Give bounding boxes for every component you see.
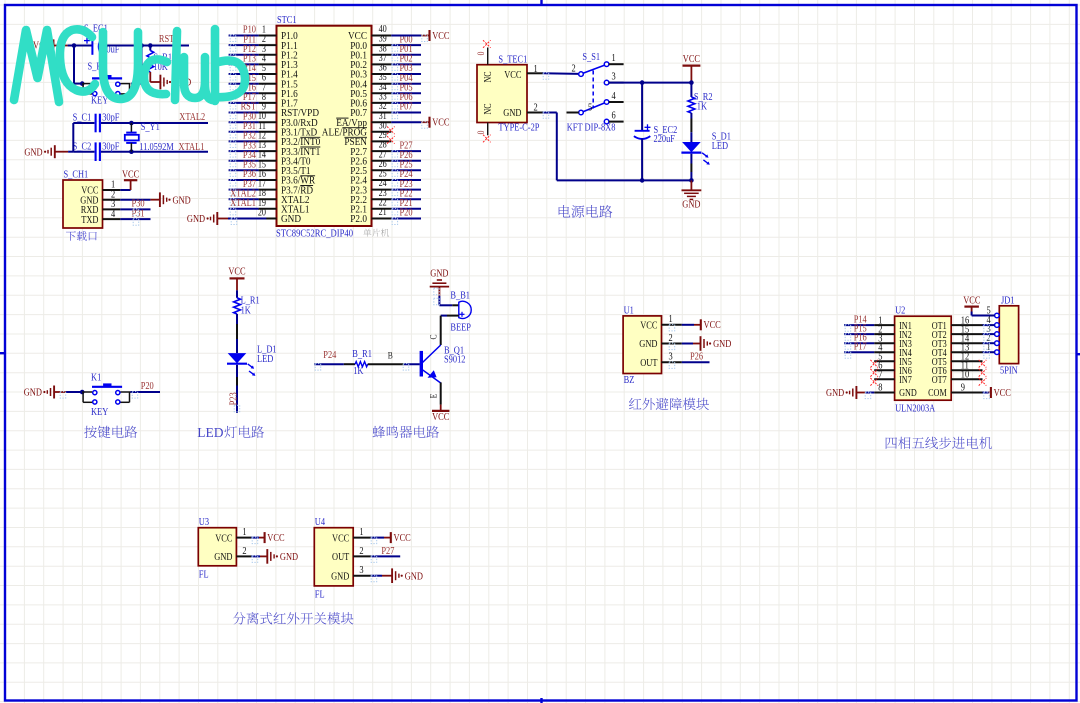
caption 红外避障模块 xyxy=(629,398,709,410)
wire U3 gnd xyxy=(251,555,260,557)
svg-text:GND: GND xyxy=(280,552,299,563)
pin 5 (left) of STC1 xyxy=(259,73,277,75)
transistor emitter xyxy=(423,370,441,383)
power VCC S_CH1 xyxy=(120,189,130,191)
wire net P03 xyxy=(391,73,421,75)
svg-text:GND: GND xyxy=(826,388,845,399)
svg-text:0: 0 xyxy=(477,51,487,55)
node RST junction xyxy=(148,43,153,48)
pin 24 (right) of STC1 xyxy=(372,189,392,191)
wire net P26 xyxy=(391,160,421,162)
svg-text:1: 1 xyxy=(359,527,363,538)
svg-text:1K: 1K xyxy=(353,366,364,377)
svg-text:4: 4 xyxy=(111,209,116,220)
svg-text:B_B1: B_B1 xyxy=(450,291,470,302)
pin 13 of U2 xyxy=(951,351,982,353)
wire U1 gnd xyxy=(682,343,693,345)
power VCC at pin31 xyxy=(428,117,430,128)
svg-text:OUT: OUT xyxy=(332,552,350,563)
svg-text:LED: LED xyxy=(712,141,729,152)
svg-text:P26: P26 xyxy=(690,351,703,362)
capacitor S_EC2 xyxy=(641,83,643,131)
pin 29 (right) of STC1 xyxy=(372,140,392,142)
wire LED to P23 xyxy=(236,365,238,377)
pin 12 of U2 xyxy=(951,360,982,362)
svg-text:P24: P24 xyxy=(323,350,337,361)
pin 2 of S_CH1 xyxy=(103,199,121,201)
pin 8 of U2 xyxy=(874,392,894,394)
connector S_CH1 body xyxy=(63,180,103,228)
module U4 body xyxy=(314,528,353,586)
wire U1 vcc xyxy=(682,324,694,326)
svg-text:5PIN: 5PIN xyxy=(1000,366,1018,377)
svg-text:K1: K1 xyxy=(91,373,101,384)
wire net P33 xyxy=(229,150,259,152)
pin 15 (left) of STC1 xyxy=(259,169,277,171)
svg-text:9: 9 xyxy=(961,383,965,394)
svg-text:VCC: VCC xyxy=(963,296,980,307)
wire R to LED xyxy=(236,314,238,324)
ground U4 xyxy=(391,568,393,583)
resistor S_R2 xyxy=(690,83,692,97)
svg-text:P2.0: P2.0 xyxy=(350,214,367,225)
pin 9 of U2 xyxy=(951,392,982,394)
svg-text:GND: GND xyxy=(899,388,917,399)
pin 7 of U2 xyxy=(874,378,894,380)
pin 1 of S_CH1 xyxy=(103,189,121,191)
wire net P16 xyxy=(844,342,874,344)
wire emitter to VCC xyxy=(440,382,442,404)
no-ERC pin30 xyxy=(387,127,395,135)
svg-text:OT7: OT7 xyxy=(932,375,947,386)
svg-text:2: 2 xyxy=(359,546,363,557)
svg-text:2: 2 xyxy=(534,103,538,114)
svg-text:0: 0 xyxy=(477,130,487,134)
wire net P14 xyxy=(844,324,874,326)
pin 1 of U1 xyxy=(662,324,682,326)
wire net P05 xyxy=(391,92,421,94)
svg-text:VCC: VCC xyxy=(683,54,700,65)
svg-text:GND: GND xyxy=(24,147,43,158)
pin 2 of U2 xyxy=(874,333,894,335)
svg-text:U4: U4 xyxy=(315,517,326,528)
pin 1 of S_TEC1 xyxy=(527,72,543,74)
wire gnd to buzzer xyxy=(438,296,440,306)
wire vcc to R xyxy=(236,290,238,298)
wire RST stub xyxy=(150,45,189,47)
svg-text:KEY: KEY xyxy=(91,407,109,418)
border zone tick bottom xyxy=(540,698,542,703)
wire net P13 xyxy=(229,63,259,65)
pin 5 of U2 xyxy=(874,360,894,362)
wire net P34 xyxy=(229,160,259,162)
svg-text:P20: P20 xyxy=(400,208,413,219)
pin 27 (right) of STC1 xyxy=(372,160,392,162)
svg-text:XTAL1: XTAL1 xyxy=(230,198,256,209)
svg-text:S_S1: S_S1 xyxy=(582,52,600,63)
transistor B_Q1 bar xyxy=(420,351,423,377)
svg-text:VCC: VCC xyxy=(122,170,139,181)
svg-text:U2: U2 xyxy=(895,306,905,317)
pin 17 (left) of STC1 xyxy=(259,189,277,191)
caption 电源电路 xyxy=(559,205,613,218)
pin 15 of U2 xyxy=(951,333,982,335)
pin 4 of S_CH1 xyxy=(103,218,121,220)
svg-text:GND: GND xyxy=(713,339,732,350)
wire net P15 xyxy=(229,83,259,85)
wire net P25 xyxy=(391,169,421,171)
svg-text:3: 3 xyxy=(669,352,673,363)
wire net RST xyxy=(229,112,259,114)
pin 3 (left) of STC1 xyxy=(259,54,277,56)
svg-text:1: 1 xyxy=(669,314,673,325)
pin 14 (left) of STC1 xyxy=(259,160,277,162)
wire VCC to cap xyxy=(68,45,93,47)
ground U1 xyxy=(700,336,702,351)
module U3 body xyxy=(198,528,236,566)
wire net P17 xyxy=(844,351,874,353)
resistor B_R1 xyxy=(355,362,368,367)
svg-text:GND: GND xyxy=(639,339,658,350)
svg-text:30pF: 30pF xyxy=(102,112,119,123)
svg-text:LED: LED xyxy=(197,425,223,440)
pin 13 (left) of STC1 xyxy=(259,150,277,152)
pin NC top xyxy=(487,48,489,65)
svg-text:S_C1: S_C1 xyxy=(73,112,92,123)
switch contacts right xyxy=(604,80,609,85)
pin 36 (right) of STC1 xyxy=(372,73,392,75)
svg-text:GND: GND xyxy=(24,388,43,399)
node junction xyxy=(72,43,77,48)
wire net P32 xyxy=(229,140,259,142)
wire TEC1 pin1 to switch xyxy=(543,72,579,75)
wire xtal left xyxy=(72,123,74,152)
svg-text:1: 1 xyxy=(534,64,538,75)
svg-text:GND: GND xyxy=(281,214,301,225)
svg-text:GND: GND xyxy=(682,200,701,211)
svg-text:1: 1 xyxy=(612,53,616,64)
wire OT1 to JD1 xyxy=(983,324,995,326)
svg-text:S_TEC1: S_TEC1 xyxy=(498,55,527,66)
pin 2 (left) of STC1 xyxy=(259,44,277,46)
wire net P11 xyxy=(229,44,259,46)
svg-text:P20: P20 xyxy=(141,381,154,392)
pin 6 (left) of STC1 xyxy=(259,83,277,85)
svg-text:STC1: STC1 xyxy=(277,15,297,26)
svg-text:VCC: VCC xyxy=(704,320,721,331)
wire net P37 xyxy=(229,189,259,191)
svg-text:GND: GND xyxy=(430,268,449,279)
wire LED to rail xyxy=(690,154,692,164)
svg-text:GND: GND xyxy=(503,108,522,119)
power VCC U3 xyxy=(264,532,266,543)
wire net P16 xyxy=(229,92,259,94)
caption 按键电路 xyxy=(84,426,137,438)
pin 1 of U2 xyxy=(874,324,894,326)
svg-text:1: 1 xyxy=(242,527,246,538)
transistor collector xyxy=(423,345,441,363)
pin NC bottom xyxy=(487,123,489,136)
svg-text:OUT: OUT xyxy=(640,358,658,369)
svg-text:4: 4 xyxy=(612,91,617,102)
wire net P07 xyxy=(391,112,421,114)
svg-text:GND: GND xyxy=(405,571,424,582)
pin 23 (right) of STC1 xyxy=(372,198,392,200)
node rail cap xyxy=(640,80,645,85)
pin 1 of JD1 xyxy=(995,350,1000,355)
pin 20 (left) of STC1 xyxy=(259,218,277,220)
logo MCUclub xyxy=(14,29,245,102)
wire xtal bottom xyxy=(73,151,94,153)
ground S_CH1 xyxy=(159,192,161,207)
svg-text:P23: P23 xyxy=(228,392,239,405)
wire net P14 xyxy=(229,73,259,75)
wire OT3 to JD1 xyxy=(983,342,995,344)
svg-text:VCC: VCC xyxy=(504,70,521,81)
comment 单片机 xyxy=(363,229,389,237)
wire net P24 xyxy=(391,179,421,181)
svg-text:P17: P17 xyxy=(854,342,867,353)
wire U1 out xyxy=(682,361,710,363)
svg-text:U1: U1 xyxy=(624,305,634,316)
pin 19 (left) of STC1 xyxy=(259,208,277,210)
pin 33 (right) of STC1 xyxy=(372,102,392,104)
wire net P06 xyxy=(391,102,421,104)
svg-text:S_CH1: S_CH1 xyxy=(64,170,89,181)
wire U4 out xyxy=(371,555,401,557)
no-ERC pin29 xyxy=(387,136,395,144)
svg-text:S_C2: S_C2 xyxy=(73,141,92,152)
pin 1 of U4 xyxy=(353,537,370,539)
svg-text:TYPE-C-2P: TYPE-C-2P xyxy=(498,123,539,134)
svg-text:XTAL2: XTAL2 xyxy=(179,112,205,123)
power VCC buzzer xyxy=(440,405,442,411)
wire OT4 to JD1 xyxy=(983,351,995,353)
pin 31 (right) of STC1 xyxy=(372,121,392,123)
wire net XTAL2 xyxy=(229,198,259,200)
svg-text:ULN2003A: ULN2003A xyxy=(895,404,935,415)
pin 10 (left) of STC1 xyxy=(259,121,277,123)
svg-text:VCC: VCC xyxy=(994,388,1011,399)
wire key to P20 xyxy=(130,391,160,393)
pin 7 (left) of STC1 xyxy=(259,92,277,94)
svg-text:KEY: KEY xyxy=(91,95,109,106)
wire net P12 xyxy=(229,54,259,56)
power VCC U1 xyxy=(700,319,702,330)
wire R2 to LED xyxy=(690,113,692,119)
wire net P31 xyxy=(229,131,259,133)
U2 pins xyxy=(874,315,982,399)
connector JD1 body xyxy=(999,306,1018,364)
wire U3 vcc xyxy=(251,537,259,539)
svg-text:10: 10 xyxy=(961,370,969,381)
pin 3 of U4 xyxy=(353,575,370,577)
node xtal top xyxy=(129,121,134,126)
svg-text:GND: GND xyxy=(187,214,206,225)
wire VCC pin31 xyxy=(391,121,421,123)
pin 37 (right) of STC1 xyxy=(372,63,392,65)
node rail vcc xyxy=(689,80,694,85)
pin 2 of JD1 xyxy=(995,341,1000,346)
wire GND pin20 xyxy=(217,218,228,220)
pin 21 (right) of STC1 xyxy=(372,218,392,220)
LED S_D1 xyxy=(682,142,701,152)
pin 22 (right) of STC1 xyxy=(372,208,392,210)
pin 14 of U2 xyxy=(951,342,982,344)
wire net P20 xyxy=(391,218,421,220)
border zone tick left xyxy=(0,352,5,354)
svg-text:VCC: VCC xyxy=(432,412,449,423)
wire U4 vcc xyxy=(371,537,384,539)
svg-text:XTAL1: XTAL1 xyxy=(179,142,205,153)
wire net P10 xyxy=(229,35,259,37)
caption 下载口 xyxy=(66,231,97,241)
pin 3 of JD1 xyxy=(995,332,1000,337)
svg-text:VCC: VCC xyxy=(432,31,449,42)
power VCC COM xyxy=(990,387,992,398)
push button S_K1 xyxy=(82,83,92,85)
pin 10 of U2 xyxy=(951,378,982,380)
pin 11 of U2 xyxy=(951,369,982,371)
wire net P27 xyxy=(391,150,421,152)
no-ERC U2 pin 10 xyxy=(979,378,987,386)
wire gnd U2 xyxy=(856,392,865,394)
wire net P00 xyxy=(391,44,421,46)
svg-text:P27: P27 xyxy=(381,546,394,557)
svg-text:VCC: VCC xyxy=(215,533,232,544)
caption 四相五线步进电机 xyxy=(886,437,992,449)
wire TEC1 pin2 gnd path xyxy=(543,112,557,114)
svg-text:P07: P07 xyxy=(400,102,413,113)
svg-text:220uF: 220uF xyxy=(654,134,676,145)
svg-text:2: 2 xyxy=(242,546,246,557)
svg-text:NC: NC xyxy=(483,103,494,114)
wire gnd to key xyxy=(54,391,66,393)
pin 3 of U1 xyxy=(662,361,682,363)
resistor L_R1 xyxy=(234,298,241,314)
svg-text:TXD: TXD xyxy=(81,215,99,226)
svg-text:BZ: BZ xyxy=(624,375,635,386)
svg-text:2: 2 xyxy=(669,333,673,344)
svg-text:S_Y1: S_Y1 xyxy=(141,122,160,133)
no-ERC U2 pin 5 xyxy=(870,360,878,368)
border zone tick right xyxy=(1077,353,1080,355)
svg-text:FL: FL xyxy=(199,570,209,581)
wire key left drop xyxy=(73,46,75,84)
LED L_D1 xyxy=(228,353,247,363)
wire VCC pin40 xyxy=(391,35,421,37)
switch S_S1 pole A xyxy=(579,72,584,77)
switch link dashed xyxy=(592,71,594,109)
node key junction xyxy=(80,390,85,395)
wire net P36 xyxy=(229,179,259,181)
svg-text:GND: GND xyxy=(173,195,192,206)
connector S_TEC1 body xyxy=(477,65,527,123)
svg-text:1K: 1K xyxy=(697,101,708,112)
svg-text:6: 6 xyxy=(612,111,616,122)
pin 2 of U4 xyxy=(353,555,370,557)
no-ERC U2 pin 6 xyxy=(870,369,878,377)
wire P31 xyxy=(120,218,150,220)
pin 2 of U1 xyxy=(662,343,682,345)
wire net P02 xyxy=(391,63,421,65)
module U1 body xyxy=(623,316,661,374)
svg-text:BEEP: BEEP xyxy=(450,323,471,334)
caption 分离式红外开关模块 xyxy=(233,612,354,624)
svg-text:GND: GND xyxy=(331,571,350,582)
pin 4 of U2 xyxy=(874,351,894,353)
svg-text:3: 3 xyxy=(612,72,616,83)
svg-text:FL: FL xyxy=(315,590,325,601)
ground U3 xyxy=(266,549,268,564)
pin 1 of U3 xyxy=(236,537,251,539)
pin 40 (right) of STC1 xyxy=(372,35,392,37)
svg-text:8: 8 xyxy=(878,383,882,394)
svg-text:11.0592M: 11.0592M xyxy=(139,142,174,153)
svg-text:GND: GND xyxy=(214,552,233,563)
pin 30 (right) of STC1 xyxy=(372,131,392,133)
svg-text:2: 2 xyxy=(572,63,576,74)
wire net P17 xyxy=(229,102,259,104)
wire net P30 xyxy=(229,121,259,123)
svg-text:JD1: JD1 xyxy=(1001,295,1015,306)
node bottom rail xyxy=(689,178,694,183)
wire net P21 xyxy=(391,208,421,210)
pin 3 of U2 xyxy=(874,342,894,344)
svg-text:VCC: VCC xyxy=(394,533,411,544)
pin 12 (left) of STC1 xyxy=(259,140,277,142)
svg-text:VCC: VCC xyxy=(332,533,349,544)
wire R to base xyxy=(368,363,404,365)
svg-text:20: 20 xyxy=(258,208,266,219)
svg-text:B_R1: B_R1 xyxy=(352,349,372,360)
U1 pins xyxy=(639,314,682,369)
resistor S_R1 xyxy=(149,46,151,51)
no-ERC U2 pin 7 xyxy=(870,378,878,386)
wire P24 to R xyxy=(314,363,344,365)
wire net P04 xyxy=(391,83,421,85)
wire buzzer to collector xyxy=(447,315,459,317)
wire cap to RST xyxy=(101,45,151,47)
border zone tick top xyxy=(540,0,542,5)
pin 2 of S_TEC1 xyxy=(527,112,543,114)
compile marks xyxy=(60,35,989,582)
ground power circuit xyxy=(690,180,692,190)
pin 39 (right) of STC1 xyxy=(372,44,392,46)
svg-text:U3: U3 xyxy=(199,517,209,528)
svg-text:C: C xyxy=(430,334,440,339)
svg-text:3: 3 xyxy=(359,565,363,576)
pin 34 (right) of STC1 xyxy=(372,92,392,94)
JD1 pins xyxy=(987,306,1000,355)
svg-text:VCC: VCC xyxy=(432,118,449,129)
wire net P01 xyxy=(391,54,421,56)
pin 26 (right) of STC1 xyxy=(372,169,392,171)
pin 16 (left) of STC1 xyxy=(259,179,277,181)
svg-text:COM: COM xyxy=(928,388,947,399)
pin 2 of U3 xyxy=(236,555,251,557)
ground at S_R1 xyxy=(159,75,161,90)
wire gnd to xtal xyxy=(55,151,69,153)
svg-text:LED: LED xyxy=(257,354,274,365)
pin 9 (left) of STC1 xyxy=(259,112,277,114)
svg-text:7: 7 xyxy=(878,370,882,381)
svg-text:B: B xyxy=(388,352,393,362)
svg-text:VCC: VCC xyxy=(228,267,245,278)
wire net P23 xyxy=(391,189,421,191)
pin 3 of S_CH1 xyxy=(103,208,121,210)
pin 4 (left) of STC1 xyxy=(259,63,277,65)
